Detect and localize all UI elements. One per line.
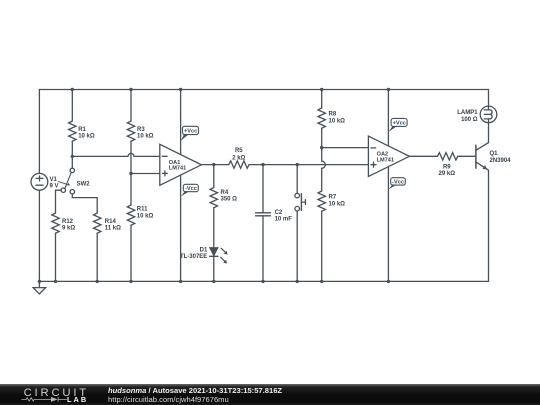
svg-text:R11: R11 xyxy=(137,207,148,213)
svg-text:Q1: Q1 xyxy=(490,151,499,157)
svg-text:LAB: LAB xyxy=(67,395,88,404)
svg-text:R1: R1 xyxy=(78,127,86,133)
svg-text:10 kΩ: 10 kΩ xyxy=(329,118,346,124)
svg-text:100 Ω: 100 Ω xyxy=(461,117,478,123)
svg-text:R4: R4 xyxy=(221,190,229,196)
svg-text:10 kΩ: 10 kΩ xyxy=(78,134,95,140)
svg-text:LM741: LM741 xyxy=(377,157,394,163)
svg-text:C2: C2 xyxy=(275,210,283,216)
svg-text:-Vcc: -Vcc xyxy=(392,180,404,186)
svg-text:SW2: SW2 xyxy=(77,182,91,188)
svg-text:10 kΩ: 10 kΩ xyxy=(137,134,154,140)
svg-text:LM741: LM741 xyxy=(169,166,186,172)
svg-text:29 kΩ: 29 kΩ xyxy=(439,171,456,177)
svg-text:350 Ω: 350 Ω xyxy=(221,197,238,203)
svg-text:R12: R12 xyxy=(62,219,74,225)
svg-text:R14: R14 xyxy=(105,219,117,225)
svg-text:10 kΩ: 10 kΩ xyxy=(137,213,154,219)
svg-text:R8: R8 xyxy=(329,112,337,118)
svg-text:10 kΩ: 10 kΩ xyxy=(329,201,346,207)
svg-text:2N3904: 2N3904 xyxy=(490,158,512,164)
svg-text:TL-307EE: TL-307EE xyxy=(180,254,207,260)
svg-text:R9: R9 xyxy=(443,165,451,171)
svg-text:R5: R5 xyxy=(235,148,243,154)
svg-text:+Vcc: +Vcc xyxy=(393,121,406,127)
svg-text:V1: V1 xyxy=(50,177,58,183)
svg-text:-Vcc: -Vcc xyxy=(185,186,197,192)
svg-text:9 kΩ: 9 kΩ xyxy=(62,226,75,232)
svg-text:R3: R3 xyxy=(137,127,145,133)
svg-text:+Vcc: +Vcc xyxy=(184,129,197,135)
svg-text:LAMP1: LAMP1 xyxy=(457,110,478,116)
svg-text:2 kΩ: 2 kΩ xyxy=(232,155,245,161)
svg-text:R7: R7 xyxy=(329,195,337,201)
svg-text:11 kΩ: 11 kΩ xyxy=(105,226,121,232)
svg-text:9 V: 9 V xyxy=(50,184,59,190)
svg-text:D1: D1 xyxy=(200,247,208,253)
svg-text:10 mF: 10 mF xyxy=(275,217,293,223)
